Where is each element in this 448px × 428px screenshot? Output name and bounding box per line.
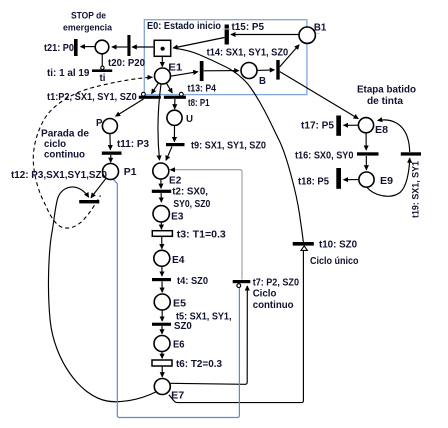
svg-text:de tinta: de tinta <box>367 96 404 107</box>
svg-text:continuo: continuo <box>253 300 294 311</box>
svg-text:Ciclo único: Ciclo único <box>310 256 359 267</box>
svg-text:t11: P3: t11: P3 <box>117 139 150 150</box>
svg-text:E4: E4 <box>172 255 185 266</box>
svg-text:t2: SX0,: t2: SX0, <box>172 187 208 198</box>
svg-text:t19: SX1, SY1: t19: SX1, SY1 <box>411 161 421 218</box>
svg-text:E8: E8 <box>375 125 389 136</box>
svg-text:t3: T1=0.3: t3: T1=0.3 <box>177 229 227 240</box>
svg-text:t12: P3,SX1,SY1,SZ0: t12: P3,SX1,SY1,SZ0 <box>11 170 107 181</box>
svg-text:t20: P20: t20: P20 <box>108 58 145 69</box>
svg-text:SY0, SZ0: SY0, SZ0 <box>173 199 210 210</box>
svg-text:Etapa batido: Etapa batido <box>357 85 416 96</box>
svg-text:t7: P2, SZ0: t7: P2, SZ0 <box>253 278 299 289</box>
svg-text:t4: SZ0: t4: SZ0 <box>177 276 208 287</box>
svg-text:STOP de: STOP de <box>71 11 106 22</box>
svg-text:t13: P4: t13: P4 <box>188 84 217 95</box>
svg-text:t17: P5: t17: P5 <box>301 121 335 132</box>
svg-text:E1: E1 <box>168 63 183 74</box>
svg-text:E5: E5 <box>173 299 187 310</box>
svg-text:B1: B1 <box>314 22 327 33</box>
svg-text:ti: 1 al 19: ti: 1 al 19 <box>47 68 90 79</box>
svg-text:t8: P1: t8: P1 <box>188 98 210 109</box>
svg-text:U: U <box>186 114 193 125</box>
svg-text:E9: E9 <box>380 176 394 187</box>
svg-text:Ciclo: Ciclo <box>253 289 277 300</box>
svg-text:Parada de: Parada de <box>41 129 90 140</box>
svg-text:E3: E3 <box>171 212 184 223</box>
svg-text:E0: Estado inicio: E0: Estado inicio <box>147 21 221 32</box>
svg-text:t6: T2=0.3: t6: T2=0.3 <box>176 359 223 370</box>
svg-text:E6: E6 <box>173 340 185 351</box>
svg-text:t21: P0: t21: P0 <box>44 43 74 54</box>
svg-text:E7: E7 <box>171 391 184 402</box>
svg-text:B: B <box>259 76 266 87</box>
svg-text:t1:P2, SX1, SY1, SZ0: t1:P2, SX1, SY1, SZ0 <box>47 92 137 103</box>
svg-text:continuo: continuo <box>44 150 85 161</box>
svg-text:t10: SZ0: t10: SZ0 <box>319 240 357 251</box>
svg-text:SZ0: SZ0 <box>174 321 192 332</box>
svg-text:t9: SX1, SY1, SZ0: t9: SX1, SY1, SZ0 <box>191 141 266 152</box>
svg-text:t16: SX0, SY0: t16: SX0, SY0 <box>295 151 354 162</box>
svg-text:t18: P5: t18: P5 <box>298 177 330 188</box>
svg-text:ciclo: ciclo <box>44 139 66 150</box>
svg-text:t14: SX1, SY1, SZ0: t14: SX1, SY1, SZ0 <box>207 48 289 59</box>
svg-text:ti: ti <box>100 73 106 84</box>
svg-text:emergencia: emergencia <box>63 23 113 34</box>
svg-text:P1: P1 <box>124 167 137 178</box>
svg-text:P: P <box>96 118 103 129</box>
svg-text:E2: E2 <box>169 176 181 187</box>
svg-text:t15: P5: t15: P5 <box>232 22 265 33</box>
